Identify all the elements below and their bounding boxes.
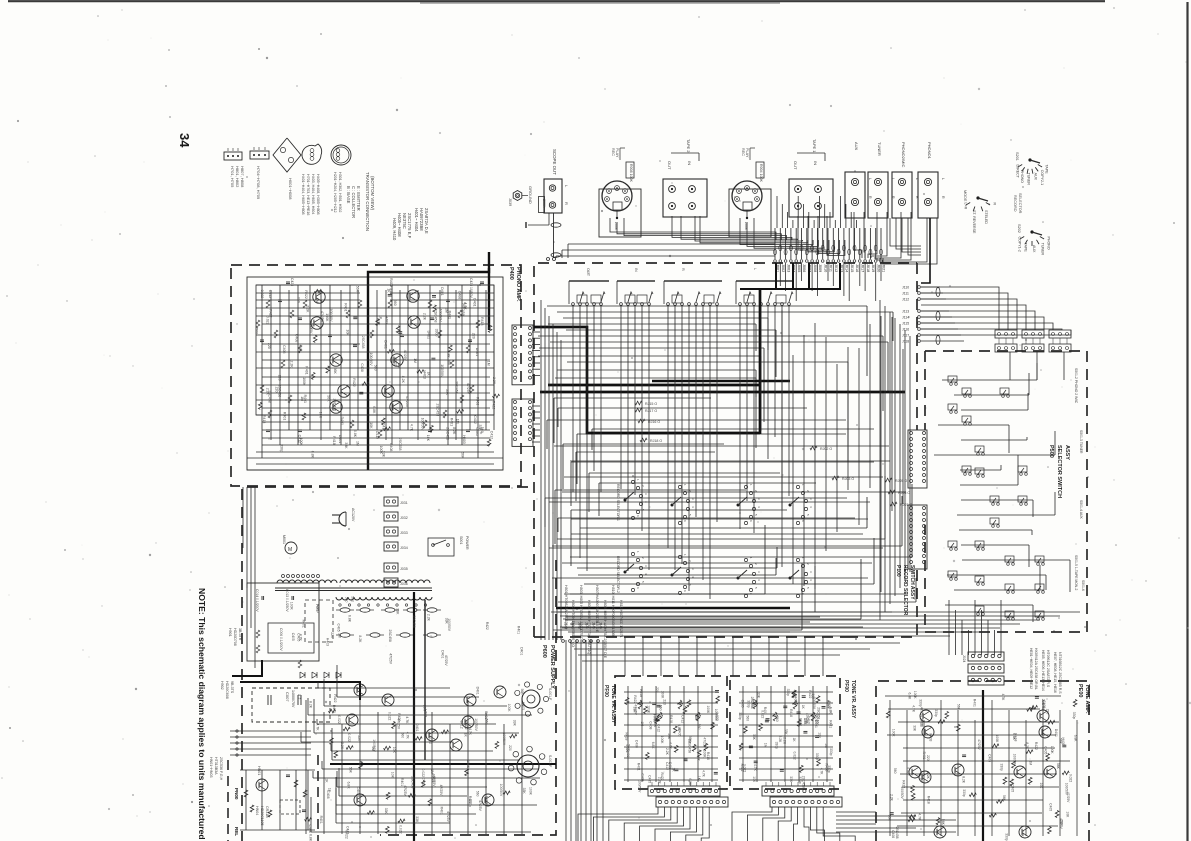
svg-text:33K: 33K [633,707,637,714]
svg-text:C425 10/50V: C425 10/50V [469,278,473,299]
wires from P400 to record selector [532,332,540,442]
svg-text:L: L [753,268,757,270]
svg-text:8.2K: 8.2K [452,427,456,435]
legend flat package type A [224,148,245,188]
bold phono wire to selector [921,218,930,283]
svg-text:SELECTOR: SELECTOR [1018,193,1022,214]
svg-text:2SC458: 2SC458 [388,630,392,642]
svg-text:D401: D401 [340,417,344,425]
svg-text:6.8K: 6.8K [677,724,681,732]
svg-text:1K: 1K [426,372,430,377]
svg-text:R401: R401 [972,699,976,707]
rotary switch S201 [1015,152,1049,185]
power transformer T001 primary [275,580,432,600]
svg-text:0.022: 0.022 [793,752,797,760]
svg-text:OUT: OUT [667,161,672,170]
svg-text:C405: C405 [648,775,652,783]
svg-text:2SC458: 2SC458 [817,707,821,719]
svg-text:330p: 330p [434,329,438,337]
svg-text:D401: D401 [472,298,476,306]
svg-text:56K: 56K [355,286,359,293]
svg-text:10K: 10K [1066,811,1070,818]
svg-text:330p: 330p [1000,764,1004,772]
svg-text:330p: 330p [738,712,742,720]
svg-text:33K: 33K [522,788,526,795]
svg-text:RJ15 O: RJ15 O [645,402,657,406]
svg-text:S202: S202 [1017,224,1021,233]
svg-text:8.2K: 8.2K [358,635,362,643]
svg-text:HT313B3A: HT313B3A [214,757,218,775]
svg-text:P600: P600 [541,645,547,658]
record switch group S101 [569,268,609,305]
svg-text:R422: R422 [808,690,812,698]
svg-text:0.022: 0.022 [429,736,433,745]
svg-text:330p: 330p [962,789,966,797]
svg-text:10K: 10K [426,435,430,442]
svg-text:P500: P500 [1048,445,1054,458]
svg-text:2.2K: 2.2K [289,361,293,369]
svg-text:220: 220 [1046,709,1050,715]
svg-text:TUNER: TUNER [1041,243,1045,256]
svg-text:R401: R401 [439,807,443,815]
power switch S001 [428,536,469,556]
svg-text:100K: 100K [1050,746,1054,755]
svg-text:AUX: AUX [1032,245,1036,253]
svg-text:S501-4 AUX: S501-4 AUX [1079,500,1083,519]
svg-text:S001: S001 [459,536,463,544]
svg-text:S501-3 TUNER: S501-3 TUNER [1079,430,1083,454]
P500 label [1048,445,1070,498]
svg-text:33K: 33K [752,734,756,741]
svg-text:REC: REC [741,148,745,156]
input jack AUX [845,142,872,218]
svg-text:J006: J006 [802,264,806,272]
svg-text:J113: J113 [902,310,909,314]
svg-text:R401: R401 [517,626,521,634]
svg-text:47/25V: 47/25V [439,785,443,796]
P600 annotation specks [289,596,532,841]
svg-text:H405~H408, H305~H808: H405~H408, H305~H808 [316,174,320,215]
svg-text:D401: D401 [338,435,342,443]
svg-text:2SC458: 2SC458 [461,303,465,316]
svg-text:S201: S201 [1015,152,1019,161]
svg-text:J112: J112 [902,298,909,302]
svg-text:R401: R401 [304,366,308,374]
svg-text:HT09612C 2SA872 R,S: HT09612C 2SA872 R,S [1046,650,1050,688]
svg-text:100/50V: 100/50V [369,353,373,367]
P400 bold supply rail [368,252,489,470]
svg-text:33K: 33K [1059,820,1063,827]
svg-text:C412: C412 [298,435,302,443]
svg-text:L+R: L+R [963,203,967,210]
bold signal wires [534,290,905,608]
wires entering PN00 [225,625,240,770]
svg-text:C408: C408 [389,443,393,451]
svg-text:2SC458: 2SC458 [412,615,416,627]
P400 annotation text specks [255,286,496,459]
svg-text:8.2K: 8.2K [309,701,313,709]
svg-text:J115: J115 [902,322,909,326]
record selector wafer S201-3 [737,484,762,525]
svg-text:H902: H902 [220,681,224,690]
svg-text:2.2K: 2.2K [890,794,894,802]
svg-text:C412: C412 [473,415,477,423]
svg-text:1M: 1M [1029,761,1033,766]
svg-text:6.8K: 6.8K [346,782,350,790]
svg-text:R401: R401 [450,418,454,426]
svg-text:0.022: 0.022 [1069,774,1073,782]
svg-text:100K: 100K [660,691,664,700]
svg-text:STELED: STELED [984,210,988,224]
svg-text:RJ16 O: RJ16 O [648,420,660,424]
svg-text:J034: J034 [400,546,408,550]
svg-text:1M: 1M [315,298,319,303]
svg-text:2SC458: 2SC458 [332,399,336,412]
svg-text:H801, H802: H801, H802 [235,166,240,188]
long cross wires y612-634 [560,612,1080,636]
P100 label [895,565,915,616]
svg-text:H401~ H404: H401~ H404 [414,208,419,232]
PE00 input connector J024 [962,652,1004,685]
svg-text:L: L [868,178,872,180]
svg-text:C405: C405 [1048,803,1052,811]
svg-text:J039: J039 [508,198,512,206]
svg-text:C408: C408 [295,334,299,342]
svg-text:J114: J114 [902,316,909,320]
svg-text:1K: 1K [463,733,467,738]
svg-text:S501-2 PHONO 2 /MIC: S501-2 PHONO 2 /MIC [1074,368,1078,404]
capsule hops right bundle [936,288,940,345]
svg-text:56K: 56K [653,721,657,728]
phono jack pair TAPE 1 [789,139,833,217]
svg-text:C408: C408 [635,740,639,748]
svg-text:0.022: 0.022 [625,744,629,752]
svg-text:R: R [941,196,945,199]
svg-text:PLAY: PLAY [745,148,749,158]
P500 switch contacts field [948,376,1044,620]
svg-text:RJ17 O: RJ17 O [645,409,657,413]
record selector wafer S201-1 front [616,479,648,521]
svg-text:330p: 330p [815,753,819,761]
svg-text:R418: R418 [789,709,793,717]
svg-text:0.022: 0.022 [266,316,270,325]
svg-text:33K: 33K [376,319,380,326]
svg-text:2SA872A D,E: 2SA872A D,E [424,208,429,234]
svg-text:RJ05 O: RJ05 O [895,479,907,483]
P500 selector switch assembly dashed box [925,351,1087,632]
svg-text:47/25V: 47/25V [403,785,407,796]
svg-text:100/50V: 100/50V [474,718,478,731]
svg-text:J012: J012 [834,264,838,272]
svg-text:100/50V: 100/50V [502,733,506,746]
svg-text:TUNER: TUNER [877,142,882,156]
svg-text:R422: R422 [304,290,308,298]
svg-text:IN: IN [687,161,692,165]
svg-text:C014 0.1/200V: C014 0.1/200V [255,589,259,612]
svg-text:J016: J016 [855,264,859,272]
svg-text:C405: C405 [297,633,301,641]
svg-text:D401: D401 [475,687,479,695]
P400 extra passives [258,289,499,446]
P400 resistors and capacitors right [400,300,480,432]
svg-text:33K: 33K [784,729,788,736]
svg-text:R422: R422 [1034,742,1038,750]
svg-text:HA09723B8: HA09723B8 [419,208,424,231]
svg-text:200K: 200K [542,199,546,208]
svg-text:C405: C405 [987,754,991,762]
verticals feeding PE00 connector [949,600,1001,655]
svg-text:H401~H404, H605~H608: H401~H404, H605~H608 [301,174,305,215]
svg-text:100K: 100K [706,706,710,715]
svg-text:HE05, HE06, HE13, HE14: HE05, HE06, HE13, HE14 [1041,650,1045,691]
svg-text:47/25V: 47/25V [466,383,470,395]
PN00 label [209,628,269,836]
svg-text:330p: 330p [786,689,790,697]
svg-text:47/25V: 47/25V [309,322,313,334]
svg-text:6.8K: 6.8K [446,351,450,359]
svg-text:HN01~HN03: HN01~HN03 [209,757,213,777]
svg-text:2.2K: 2.2K [782,737,786,745]
svg-text:6.8K: 6.8K [1074,735,1078,743]
svg-text:H701~H703, HE13~HE16: H701~H703, HE13~HE16 [306,174,310,215]
svg-text:1M: 1M [300,396,304,401]
svg-text:100/50V: 100/50V [714,709,718,722]
svg-text:TRANSISTOR CONNECTION: TRANSISTOR CONNECTION [365,172,370,231]
svg-text:R422: R422 [485,622,489,630]
svg-text:100K: 100K [647,705,651,714]
svg-text:HN01: HN01 [257,766,261,775]
svg-text:R422: R422 [464,721,468,729]
svg-text:4.7K: 4.7K [912,705,916,713]
legend title TRANSISTOR CONNECTION [365,172,375,231]
svg-text:33K: 33K [756,692,760,699]
svg-text:4.7K: 4.7K [409,424,413,432]
svg-text:PE00: PE00 [1077,684,1083,697]
svg-text:10K: 10K [752,776,756,783]
tone VR connector left J008 [648,782,728,807]
svg-text:PN00: PN00 [234,788,239,800]
svg-text:100/50V: 100/50V [637,780,641,793]
svg-text:1M: 1M [824,743,828,748]
svg-text:560: 560 [659,705,663,711]
svg-text:2.2K: 2.2K [1021,830,1025,838]
svg-text:100K: 100K [302,377,306,386]
svg-text:100K: 100K [995,735,999,744]
svg-text:C405: C405 [282,345,286,353]
svg-text:2SC458: 2SC458 [1041,699,1045,711]
svg-text:J117: J117 [902,334,909,338]
svg-text:33K: 33K [789,776,793,783]
svg-text:1M: 1M [355,441,359,446]
svg-text:J033: J033 [400,531,408,535]
svg-text:9B-3TS: 9B-3TS [230,681,234,694]
left wires P400 bottom to P600 [230,487,311,756]
svg-text:TAPE 1: TAPE 1 [812,139,817,153]
svg-text:R422: R422 [633,695,637,703]
PE00 passive components [886,697,1077,834]
svg-text:H403: H403 [424,709,428,717]
svg-text:TAPE: TAPE [1045,165,1049,175]
svg-text:2SC1775 E,F: 2SC1775 E,F [407,213,412,239]
svg-text:2SC458: 2SC458 [688,741,692,753]
svg-text:R418: R418 [1013,733,1017,741]
svg-text:2.2K: 2.2K [265,388,269,396]
svg-text:10K: 10K [392,747,396,754]
P600 circuit mesh [301,665,540,834]
svg-text:2.2K: 2.2K [427,614,431,622]
svg-text:AC120V: AC120V [351,508,355,522]
PE00 wire grid [885,696,1077,836]
rectifier diodes D601 [300,672,341,678]
svg-text:56K: 56K [1002,795,1006,802]
svg-text:0.022: 0.022 [337,715,341,724]
svg-text:AUX: AUX [1034,173,1038,181]
wire mesh lower band [551,476,916,630]
svg-text:OUT: OUT [586,268,590,277]
record switch group S104 [736,268,794,305]
svg-text:H701, H705: H701, H705 [230,166,235,188]
svg-text:R418: R418 [669,715,673,723]
wires from tape jacks to junction bundle [610,216,845,255]
P400 mid resistors [346,278,393,438]
svg-text:PHONO AMP.: PHONO AMP. [515,267,521,302]
svg-text:8.2K: 8.2K [1025,742,1029,750]
svg-text:H403, H404, H605, H604: H403, H404, H605, H604 [311,174,315,214]
svg-text:33K: 33K [395,608,399,615]
wires right bundle staircase to P500 top connectors [921,287,1071,335]
svg-text:C007: C007 [285,692,290,702]
svg-text:J014: J014 [845,264,849,272]
svg-text:X 2: X 2 [297,694,301,699]
input jack PHONO1 [918,142,945,218]
svg-text:2SC536 F,G,H: 2SC536 F,G,H [219,757,223,781]
svg-text:R004 100K: R004 100K [759,164,763,183]
svg-text:C405: C405 [356,787,360,795]
svg-text:4.7K: 4.7K [702,770,706,778]
svg-text:1M: 1M [640,722,644,727]
svg-text:RECORD: RECORD [1013,195,1017,212]
svg-text:6.8K: 6.8K [688,778,692,786]
svg-text:100/50V: 100/50V [499,784,503,797]
svg-text:C405: C405 [337,624,341,632]
output socket lower [508,746,552,785]
svg-text:3B-3TR: 3B-3TR [238,628,242,641]
svg-text:560: 560 [255,328,259,334]
svg-text:HE01~HE04, HE09~HE12: HE01~HE04, HE09~HE12 [1029,648,1033,689]
input jack TUNER [868,142,895,218]
svg-text:6.8K: 6.8K [908,693,912,701]
svg-text:220: 220 [357,735,361,741]
bold bus under jacks [740,263,840,289]
svg-text:R: R [681,268,685,271]
svg-text:J035: J035 [400,567,408,571]
svg-text:J036: J036 [400,582,408,586]
legend diamond package [273,138,301,200]
switch group jumper wires [577,295,786,303]
svg-text:PHONO: PHONO [1047,237,1051,250]
svg-text:C405: C405 [316,605,320,613]
svg-text:H403: H403 [422,371,426,379]
phono jack pair TAPE 2 [663,139,707,217]
P600 transistor list text [564,585,623,659]
long horizontals left of bundle [556,244,775,258]
svg-text:330p: 330p [919,699,923,707]
PF00 label right [843,680,856,719]
P400 output connector J401 [512,325,533,385]
RJ resistor labels [635,401,912,507]
svg-text:33K: 33K [445,389,449,396]
svg-text:560: 560 [775,716,779,722]
svg-text:R401: R401 [637,763,641,771]
svg-text:C013 0.1/250V: C013 0.1/250V [285,589,289,612]
svg-text:C408: C408 [648,721,652,729]
svg-text:4.7K: 4.7K [316,724,320,732]
svg-text:B : BASE: B : BASE [346,186,351,204]
svg-text:H403: H403 [929,734,933,742]
svg-text:DIRECT: DIRECT [1015,165,1019,179]
svg-text:R: R [564,202,569,205]
svg-text:330p: 330p [1005,833,1009,841]
svg-text:100/50V: 100/50V [439,309,443,323]
svg-text:1M: 1M [486,361,490,366]
svg-text:56K: 56K [327,395,331,402]
svg-text:PHONO: PHONO [1020,170,1024,183]
svg-text:R401: R401 [344,303,348,311]
mesh mid verticals right zone [782,310,903,592]
svg-text:8.2K: 8.2K [962,776,966,784]
svg-text:56K: 56K [298,345,302,352]
P400 label [508,267,521,302]
svg-text:1M: 1M [371,746,375,751]
input jack PHONO2/MIC [892,142,919,218]
svg-text:47/25V: 47/25V [478,800,482,811]
legend pin name list [346,186,361,218]
svg-text:D401: D401 [426,331,430,339]
svg-text:0.022: 0.022 [399,825,403,834]
PN00 relay circuit [240,770,315,830]
svg-text:ST. REVERSE: ST. REVERSE [972,210,976,234]
ground terminal GND hex [508,186,533,206]
svg-text:C425: C425 [290,278,294,286]
svg-text:C408: C408 [458,291,462,299]
svg-text:6.8K: 6.8K [651,742,655,750]
P400 inner circuit frame [247,277,503,470]
svg-text:P400: P400 [508,267,514,280]
svg-text:D401: D401 [415,723,419,731]
svg-text:C405: C405 [1043,746,1047,754]
svg-text:AUX: AUX [854,142,859,151]
DIN jack TAPE 1 REC [729,148,771,237]
P600 label [541,645,555,689]
bus record selector to tone blocks [570,643,900,661]
svg-text:34: 34 [177,133,192,148]
svg-text:H403: H403 [462,435,466,443]
svg-text:PLAY: PLAY [615,148,619,158]
jack bundle risers to jacks [777,196,857,228]
wires tone VR to PE00 [836,812,956,832]
svg-text:C405: C405 [741,700,745,708]
svg-text:R422: R422 [393,358,397,366]
svg-text:J010: J010 [823,264,827,272]
svg-text:TONE VR. ASSY: TONE VR. ASSY [850,680,856,719]
svg-text:C405: C405 [1011,784,1015,792]
svg-text:560: 560 [893,768,897,774]
regulator transistors H804 H805 H806 H807 [346,684,506,806]
drop wires record box to tone boxes [625,637,823,676]
svg-text:HD20C608: HD20C608 [225,681,229,699]
svg-text:220: 220 [296,297,300,303]
svg-text:D401: D401 [440,287,444,295]
